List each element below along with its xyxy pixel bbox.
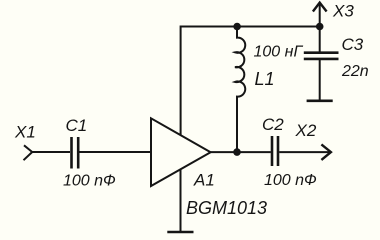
svg-text:C3: C3	[342, 35, 364, 54]
svg-text:C2: C2	[262, 115, 284, 134]
svg-text:BGM1013: BGM1013	[186, 198, 267, 218]
svg-text:100 nФ: 100 nФ	[63, 173, 116, 190]
svg-text:X3: X3	[332, 1, 354, 20]
svg-text:A1: A1	[193, 170, 215, 189]
svg-text:100 nФ: 100 nФ	[264, 172, 317, 189]
svg-text:100 нГ: 100 нГ	[254, 44, 304, 61]
svg-text:C1: C1	[66, 116, 88, 135]
svg-text:22n: 22n	[341, 63, 369, 80]
svg-text:X1: X1	[14, 122, 36, 141]
svg-text:X2: X2	[295, 121, 317, 140]
svg-text:L1: L1	[255, 69, 275, 89]
